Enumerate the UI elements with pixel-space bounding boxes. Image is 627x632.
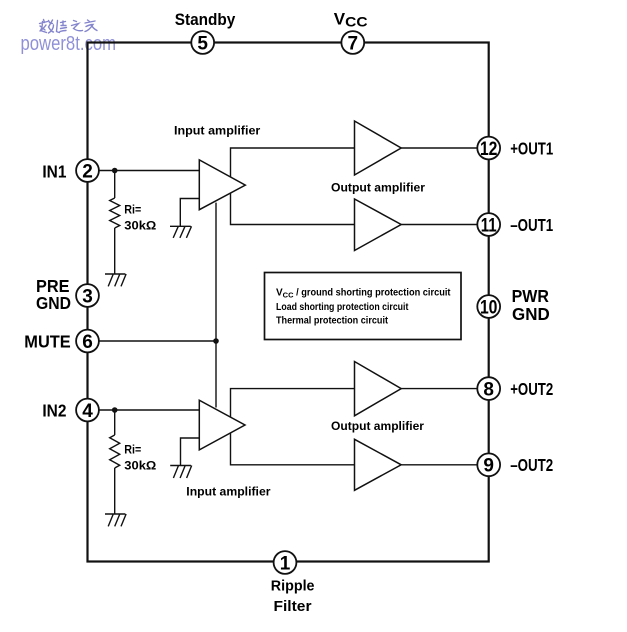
ground at input amp 1 — [170, 226, 192, 238]
svg-text:Input amplifier: Input amplifier — [174, 124, 261, 138]
svg-text:VCC / ground shorting protecti: VCC / ground shorting protection circuit — [276, 288, 451, 300]
input amplifier U2 triangle — [199, 400, 245, 450]
pin 4 IN2 — [76, 399, 99, 422]
svg-text:+OUT1: +OUT1 — [510, 138, 553, 158]
svg-text:30kΩ: 30kΩ — [124, 458, 156, 472]
svg-text:Standby: Standby — [175, 10, 236, 29]
node junction IN2/Ri2 — [112, 407, 118, 413]
pin 10 PWR GND — [477, 295, 500, 318]
wire R2 to ground — [114, 468, 116, 514]
wire amp3 to pin12 — [401, 147, 477, 149]
pin 8 +OUT2 — [477, 377, 500, 400]
pin 3 PRE GND — [76, 284, 99, 307]
svg-text:30kΩ: 30kΩ — [124, 218, 156, 232]
input amplifier U1 triangle — [199, 160, 245, 210]
svg-text:6: 6 — [82, 332, 93, 353]
svg-text:Ripple: Ripple — [271, 578, 315, 595]
svg-text:2: 2 — [82, 161, 93, 182]
svg-text:Load shorting protection circu: Load shorting protection circuit — [276, 302, 409, 313]
mute line vertical from amp1 to amp2 — [215, 203, 217, 408]
wire input amp1 ground stub — [180, 199, 199, 227]
ground at input amp 2 — [170, 466, 192, 479]
svg-text:GND: GND — [36, 293, 71, 313]
svg-text:Output amplifier: Output amplifier — [331, 419, 424, 433]
output amplifier U6 triangle -OUT2 — [355, 439, 402, 490]
wire amp5 to pin8 — [401, 388, 477, 390]
pin 12 +OUT1 — [477, 137, 500, 161]
svg-text:IN1: IN1 — [42, 162, 66, 182]
node junction IN1/Ri1 — [112, 168, 118, 174]
svg-text:–OUT2: –OUT2 — [510, 455, 553, 475]
svg-text:Thermal protection circuit: Thermal protection circuit — [276, 316, 389, 327]
svg-text:GND: GND — [512, 304, 550, 324]
wire channel1 splitter box — [231, 148, 355, 225]
svg-text:12: 12 — [480, 139, 498, 160]
output amplifier U4 triangle -OUT1 — [355, 199, 402, 251]
svg-text:IN2: IN2 — [42, 401, 66, 421]
svg-text:8: 8 — [483, 379, 494, 400]
pin 5 Standby — [191, 31, 214, 54]
wire junction to resistor R1 — [114, 171, 116, 199]
svg-text:Ri=: Ri= — [124, 202, 141, 216]
pin 6 MUTE — [76, 330, 99, 353]
wire input amp2 ground stub — [181, 438, 200, 466]
svg-text:1: 1 — [280, 553, 291, 574]
pin 11 -OUT1 — [477, 213, 500, 237]
pin 2 IN1 — [76, 159, 99, 182]
pin 1 Ripple Filter — [274, 551, 297, 574]
wire amp6 to pin9 — [401, 464, 477, 466]
resistor R1 Ri 30k — [110, 198, 120, 228]
svg-text:5: 5 — [197, 33, 208, 54]
watermark chinese text 数据之家 — [40, 20, 98, 34]
svg-text:11: 11 — [481, 216, 497, 237]
protection circuit box — [265, 273, 462, 340]
svg-text:Input amplifier: Input amplifier — [186, 484, 270, 498]
svg-text:MUTE: MUTE — [24, 331, 70, 351]
wire MUTE pin6 to mute line — [99, 340, 216, 342]
svg-text:Output amplifier: Output amplifier — [331, 181, 425, 195]
chip outline border — [88, 43, 489, 562]
svg-text:power8t.com: power8t.com — [21, 33, 117, 55]
pin 9 -OUT2 — [477, 453, 500, 476]
svg-text:10: 10 — [480, 297, 498, 318]
node junction MUTE — [213, 338, 219, 344]
wire amp4 to pin11 — [401, 224, 477, 226]
svg-text:4: 4 — [82, 401, 93, 422]
ground below R2 — [105, 514, 126, 526]
wire channel2 splitter box — [231, 389, 355, 465]
wire junction to resistor R2 — [114, 410, 116, 435]
svg-text:Ri=: Ri= — [124, 443, 141, 457]
svg-text:Filter: Filter — [274, 598, 312, 615]
output amplifier U5 triangle +OUT2 — [355, 362, 402, 416]
svg-text:9: 9 — [483, 456, 494, 477]
svg-text:+OUT2: +OUT2 — [510, 379, 553, 399]
svg-text:3: 3 — [82, 286, 93, 307]
wire IN1 pin2 to input amp 1 — [99, 170, 200, 172]
svg-text:–OUT1: –OUT1 — [510, 215, 553, 235]
ground below R1 — [105, 274, 126, 286]
pin 7 VCC — [341, 31, 364, 54]
resistor R2 Ri 30k — [110, 435, 120, 468]
wire IN2 pin4 to input amp 2 — [99, 409, 200, 411]
svg-text:7: 7 — [348, 33, 359, 54]
output amplifier U3 triangle +OUT1 — [355, 121, 402, 175]
wire R1 to ground — [114, 228, 116, 274]
